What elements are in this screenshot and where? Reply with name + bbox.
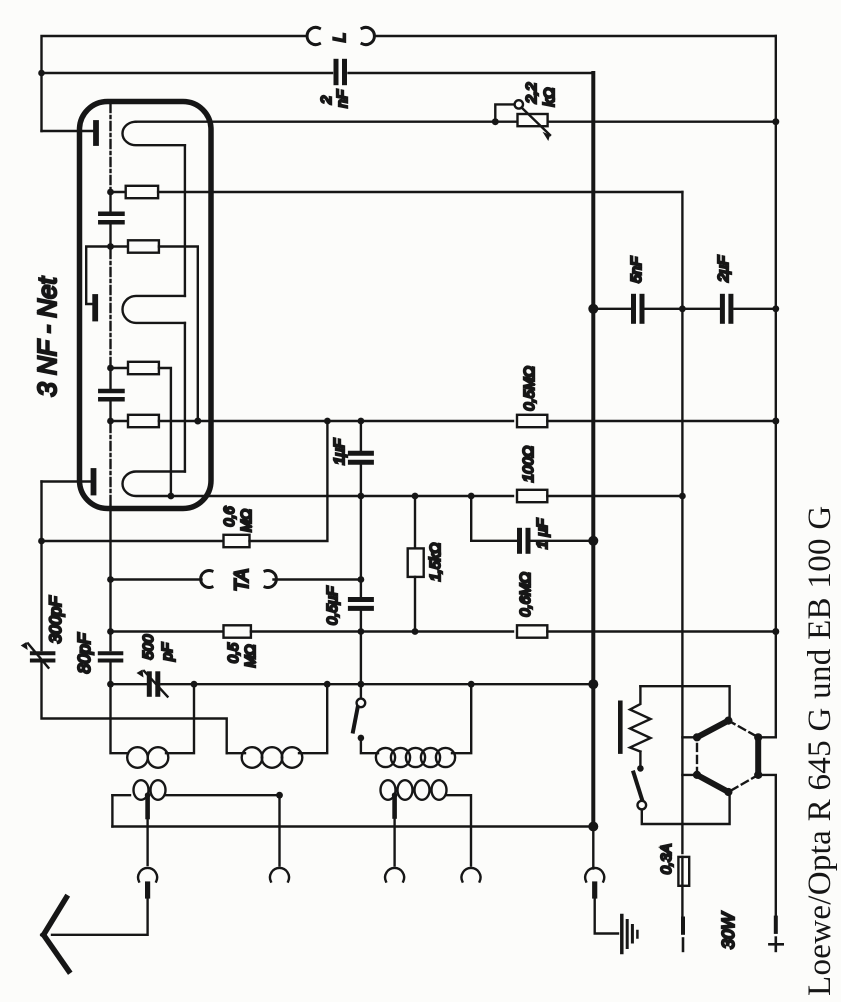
filament dash-dot axis <box>109 104 111 506</box>
wire cathode3 lead from left rail <box>42 480 92 482</box>
resistor internal 2 <box>111 245 129 247</box>
node R_i1 left <box>107 189 114 196</box>
wire top row y=36 left of speaker jacks <box>42 36 308 131</box>
dropper slider bar <box>618 703 623 752</box>
wire mid vertical x=682.4 <box>681 192 683 853</box>
svg-text:0,6MΩ: 0,6MΩ <box>517 572 534 617</box>
grid 1 hairpin <box>122 122 184 146</box>
socket antenna coil tap <box>138 868 157 882</box>
node R_i3 left <box>107 365 114 372</box>
potentiometer 2,2 kOhm <box>515 100 523 108</box>
wire x=110.5 to cap2 <box>109 368 111 389</box>
terminal plus pin <box>774 918 778 932</box>
capacitor 80pF <box>100 653 122 660</box>
capacitor 5nF <box>634 296 643 321</box>
node row421 long vertical <box>194 418 201 425</box>
svg-text:0,3A: 0,3A <box>658 844 675 875</box>
svg-text:0,5MΩ: 0,5MΩ <box>521 366 538 411</box>
antenna <box>44 898 69 972</box>
dropper resistor zigzag <box>630 686 651 751</box>
svg-text:0,5: 0,5 <box>226 642 242 663</box>
wire fuse to minus terminal <box>681 886 683 919</box>
resistor internal 3 <box>111 367 129 369</box>
svg-text:pF: pF <box>159 642 176 661</box>
ground <box>622 916 638 953</box>
pickup jack pair TA <box>201 571 277 588</box>
node grid3 bottom / R_i3 <box>168 493 175 500</box>
tube envelope 3NF <box>80 102 212 509</box>
heater circuit top wire <box>640 686 729 720</box>
wire row y=421 nodes <box>324 418 331 425</box>
wire TA row y=579.5 <box>111 578 202 580</box>
wire switch to bottom <box>642 792 730 824</box>
switch wave band <box>360 684 362 698</box>
svg-text:1 μF: 1 μF <box>534 518 551 549</box>
wire 0,6 MOhm row y=541 <box>42 540 224 542</box>
node 5nF row bus <box>588 304 598 314</box>
node row2/left rail <box>38 70 45 77</box>
speaker jack pair L <box>307 27 374 44</box>
wire tuning row y=684.2 <box>111 683 146 685</box>
wire x=110.5 below tube <box>109 506 111 650</box>
label plus <box>769 938 782 951</box>
wire row y=73 from left rail to HT bus corner <box>42 72 333 74</box>
fuse 0,3A <box>678 857 689 886</box>
wire to ground <box>595 896 618 934</box>
capacitor 0,5uF column <box>350 600 371 609</box>
wire column x=360.9 from row421 down <box>360 421 362 450</box>
svg-text:Loewe/Opta R 645 G und EB 100: Loewe/Opta R 645 G und EB 100 G <box>802 506 838 997</box>
node cathode2/R_i2 <box>107 243 114 250</box>
capacitor 300pF variable <box>32 653 54 660</box>
wire row y=421 resistor to right rail <box>547 420 776 422</box>
cathode 2 bar <box>92 297 98 319</box>
wire bridge DC stubs to right rail <box>758 736 776 738</box>
tap coil D <box>145 792 151 798</box>
wire row y=421 out of tube <box>159 420 513 422</box>
resistor 0,6 MOhm <box>224 535 250 547</box>
wire 0,5 MOhm row y=631.5 <box>111 630 224 632</box>
coil D secondary with tap <box>112 794 130 796</box>
wire cathode1 lead from left rail <box>42 130 94 132</box>
coil E secondary with tap <box>381 780 396 800</box>
wire zigzag to switch <box>639 752 641 769</box>
socket 2 <box>270 868 289 882</box>
node R_i4 left <box>107 418 114 425</box>
wire row y=496 to 100 Ohm and mid vertical <box>358 493 365 500</box>
wire top row y=36 right of jacks to right rail corner <box>375 35 776 37</box>
resistor internal 1 <box>111 191 126 193</box>
wire 1uF horizontal branch <box>471 496 516 541</box>
wire grid1 row y=121.7 <box>136 120 776 122</box>
hexagon corner nodes <box>724 717 732 725</box>
capacitor 1uF bus coupling <box>520 530 529 551</box>
coil B <box>227 752 245 754</box>
label minus <box>682 939 685 951</box>
capacitor 500pF variable <box>149 674 158 695</box>
svg-text:30W: 30W <box>718 912 738 949</box>
wire bus to mains socket <box>592 827 594 869</box>
svg-text:MΩ: MΩ <box>239 509 255 532</box>
svg-text:TA: TA <box>232 569 253 592</box>
terminal minus pin <box>681 919 685 933</box>
socket mains earth <box>585 868 604 882</box>
capacitor internal 2 <box>100 391 122 399</box>
svg-text:5nF: 5nF <box>628 256 645 283</box>
svg-text:3 NF - Net: 3 NF - Net <box>32 276 62 397</box>
capacitor internal 1 <box>100 214 122 223</box>
wire cathode2 lead <box>86 247 110 305</box>
wire bottom return y=826.5 <box>112 825 593 827</box>
resistor 0,5 MOhm <box>224 625 251 637</box>
svg-text:500: 500 <box>140 634 157 660</box>
resistor 100 Ohm <box>517 490 547 502</box>
wire row y=73 cap to bus <box>349 72 594 74</box>
svg-text:2: 2 <box>318 95 335 105</box>
svg-text:nF: nF <box>334 89 351 107</box>
socket 3 <box>385 868 404 882</box>
coil C <box>361 738 378 753</box>
resistor 0,6 MOhm right <box>517 625 547 637</box>
svg-text:1,5kΩ: 1,5kΩ <box>428 543 444 581</box>
svg-text:2,2: 2,2 <box>523 82 540 105</box>
cathode 3 bar <box>91 471 97 493</box>
left rail lower segment <box>40 482 42 651</box>
wire secondary left down <box>111 795 113 826</box>
wire row y=192 to right corner <box>158 191 682 193</box>
svg-text:0,6: 0,6 <box>222 505 238 526</box>
cathode 1 bar <box>93 123 99 143</box>
wire antenna lead <box>52 896 148 935</box>
wire anode1 link vertical <box>184 145 186 296</box>
svg-text:MΩ: MΩ <box>243 644 259 667</box>
svg-text:1μF: 1μF <box>331 438 348 465</box>
capacitor 2uF <box>722 296 731 321</box>
rectifier bridge hexagon <box>697 721 758 792</box>
socket 4 <box>462 868 481 882</box>
resistor 1,5 kOhm vertical <box>414 496 416 548</box>
grid 3 hairpin <box>123 472 361 497</box>
wire wiper link <box>495 104 514 121</box>
capacitor 2nF <box>336 61 345 82</box>
capacitor 1uF column <box>350 453 371 462</box>
grid 2 hairpin <box>123 296 185 323</box>
svg-text:300pF: 300pF <box>47 596 65 644</box>
wire 5nF row y=308.8 <box>593 308 630 310</box>
right rail vertical upper <box>775 36 777 737</box>
coil A antenna primary <box>111 684 129 753</box>
resistor 0,5 MOhm row421 <box>517 415 547 427</box>
wire bridge AC stubs <box>682 736 697 738</box>
svg-text:0,5μF: 0,5μF <box>324 586 341 625</box>
node grid1 row / right rail <box>772 118 779 125</box>
svg-text:kΩ: kΩ <box>541 88 558 107</box>
switch mains <box>634 773 643 800</box>
wire R_i3 right down to row 496 <box>159 368 171 496</box>
svg-text:80pF: 80pF <box>74 632 94 673</box>
wire anode2 link vertical <box>184 323 186 472</box>
wire R_i2 to long vertical <box>159 247 198 422</box>
wire x=110.5 node to cap <box>109 192 111 212</box>
node 2.2k wiper junction <box>492 118 499 125</box>
HT bus thick vertical <box>591 73 595 827</box>
svg-text:2μF: 2μF <box>715 255 732 283</box>
svg-text:L: L <box>330 33 349 42</box>
svg-text:100Ω: 100Ω <box>520 446 537 482</box>
resistor internal 4 <box>111 420 129 422</box>
node secondary centre <box>276 792 283 799</box>
